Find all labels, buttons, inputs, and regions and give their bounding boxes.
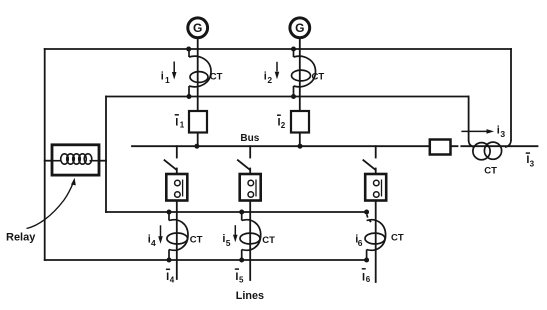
svg-text:6: 6 (358, 238, 363, 248)
svg-text:Lines: Lines (236, 290, 264, 302)
svg-text:CT: CT (210, 71, 223, 82)
svg-text:CT: CT (391, 233, 404, 244)
svg-text:CT: CT (262, 235, 275, 246)
svg-text:CT: CT (312, 72, 325, 83)
svg-text:5: 5 (239, 276, 244, 285)
svg-text:1: 1 (180, 120, 185, 129)
svg-text:1: 1 (165, 75, 170, 85)
svg-text:CT: CT (484, 165, 497, 176)
svg-text:G: G (295, 21, 304, 35)
svg-text:Bus: Bus (240, 133, 259, 144)
svg-text:G: G (193, 21, 202, 35)
svg-text:CT: CT (190, 235, 203, 246)
svg-text:4: 4 (151, 238, 156, 248)
svg-text:i: i (497, 125, 500, 137)
svg-text:4: 4 (170, 276, 175, 285)
svg-text:5: 5 (226, 238, 231, 248)
svg-text:I: I (235, 271, 238, 283)
svg-text:2: 2 (267, 75, 272, 85)
svg-text:I: I (175, 116, 178, 128)
svg-text:6: 6 (366, 275, 371, 284)
svg-text:3: 3 (500, 129, 505, 139)
svg-text:i: i (161, 70, 164, 82)
svg-text:3: 3 (530, 160, 535, 169)
svg-text:Relay: Relay (6, 231, 36, 243)
svg-text:2: 2 (281, 121, 286, 130)
svg-text:I: I (362, 271, 365, 283)
svg-text:i: i (264, 70, 267, 82)
